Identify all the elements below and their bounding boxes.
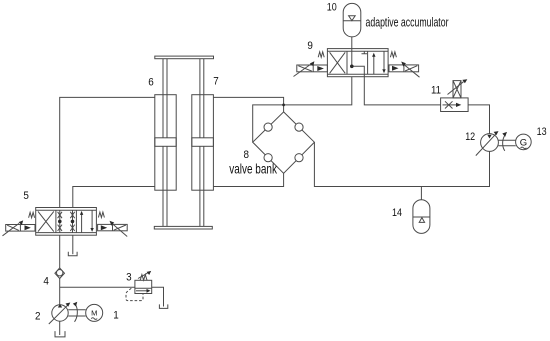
svg-text:10: 10	[327, 1, 337, 13]
svg-text:1: 1	[113, 310, 119, 322]
svg-text:6: 6	[148, 77, 154, 89]
svg-text:9: 9	[307, 40, 313, 52]
svg-text:12: 12	[465, 131, 475, 143]
svg-text:14: 14	[392, 207, 402, 219]
svg-text:8: 8	[244, 149, 250, 161]
svg-text:11: 11	[431, 85, 441, 97]
svg-text:13: 13	[537, 126, 547, 138]
svg-text:M: M	[91, 309, 97, 318]
svg-text:valve bank: valve bank	[229, 161, 278, 177]
svg-text:7: 7	[213, 76, 219, 88]
svg-text:5: 5	[23, 190, 29, 202]
svg-text:G: G	[520, 137, 527, 148]
svg-text:4: 4	[43, 275, 49, 287]
svg-text:adaptive accumulator: adaptive accumulator	[366, 15, 449, 30]
svg-text:3: 3	[126, 271, 132, 283]
svg-text:2: 2	[35, 311, 41, 323]
